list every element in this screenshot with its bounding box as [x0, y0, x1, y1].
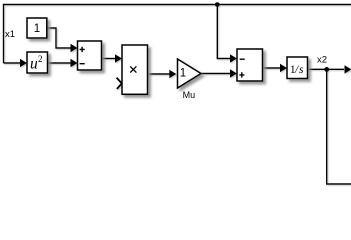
- svg-text:2: 2: [38, 54, 43, 64]
- sum block 2: [237, 49, 263, 81]
- wire gain to sum2 plus input: [201, 73, 231, 75]
- svg-text:1: 1: [180, 67, 186, 79]
- wire top bus junction down to sum2 minus input: [217, 5, 230, 59]
- gain block Mu: [178, 59, 202, 88]
- wire x2 feedback down and right: [327, 69, 351, 184]
- junction node x2: [324, 67, 329, 72]
- product block: [122, 45, 148, 94]
- svg-text:x2: x2: [317, 55, 327, 66]
- wire sum1 to product: [102, 58, 116, 60]
- wire integrator output x2 to right edge: [308, 68, 345, 70]
- integrator block 1/s: [287, 57, 308, 79]
- math function block u^2: [27, 52, 48, 73]
- wire top bus from sum output of left loop across to right edge: [4, 5, 351, 64]
- wire product to gain Mu: [148, 73, 172, 75]
- svg-text:1: 1: [34, 23, 40, 35]
- wire u2 to sum1 minus input: [48, 62, 72, 64]
- svg-text:x1: x1: [5, 29, 15, 40]
- constant block 1: [27, 18, 47, 38]
- svg-text:s: s: [299, 64, 304, 76]
- wire constant 1 to sum1 plus input: [47, 28, 71, 48]
- svg-text:u: u: [30, 56, 38, 73]
- junction node on top bus: [215, 2, 220, 7]
- sum block 1: [78, 41, 102, 70]
- svg-text:Mu: Mu: [183, 90, 196, 100]
- wire into u2 block: [4, 62, 21, 64]
- wire sum2 to integrator: [263, 67, 281, 69]
- unconnected port chevron on product second input: [117, 78, 122, 89]
